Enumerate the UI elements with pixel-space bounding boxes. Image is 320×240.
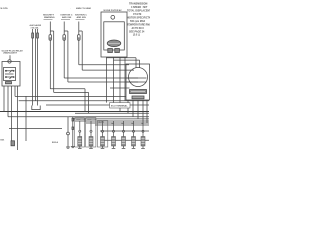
- svg-text:AND IGN: AND IGN: [77, 16, 87, 19]
- svg-text:AND IGN: AND IGN: [62, 16, 72, 19]
- svg-text:E02 A: E02 A: [52, 141, 58, 144]
- svg-text:ECU TERMINAL: ECU TERMINAL: [111, 105, 128, 108]
- svg-text:7.5A 15A: 7.5A 15A: [31, 26, 40, 29]
- svg-text:(MAIN) ASSY: (MAIN) ASSY: [4, 52, 18, 55]
- svg-text:NOISE FILTER AY: NOISE FILTER AY: [104, 9, 123, 12]
- svg-text:INJECTOR: INJECTOR: [76, 119, 86, 121]
- svg-text:WARNING: WARNING: [44, 16, 55, 19]
- svg-text:MAIN CYL HEAD: MAIN CYL HEAD: [76, 7, 92, 10]
- svg-text:INJ 3: INJ 3: [99, 122, 105, 124]
- svg-text:M OVRL: M OVRL: [1, 8, 9, 10]
- svg-text:INJECTOR: INJECTOR: [87, 119, 97, 121]
- svg-text:(2.0 L): (2.0 L): [133, 33, 140, 36]
